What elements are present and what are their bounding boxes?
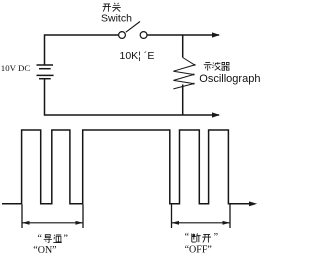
svg-text:10K¦ ´E: 10K¦ ´E bbox=[120, 50, 155, 62]
svg-text:”: ” bbox=[64, 234, 68, 245]
svg-text:“: “ bbox=[38, 234, 43, 245]
svg-text:Switch: Switch bbox=[101, 13, 132, 25]
svg-text:10V DC: 10V DC bbox=[1, 63, 31, 73]
svg-text:“ON”: “ON” bbox=[33, 245, 56, 256]
svg-text:”: ” bbox=[214, 232, 218, 243]
svg-text:Oscillograph: Oscillograph bbox=[199, 73, 260, 85]
svg-text:“: “ bbox=[185, 232, 190, 243]
svg-text:“OFF”: “OFF” bbox=[185, 244, 212, 255]
